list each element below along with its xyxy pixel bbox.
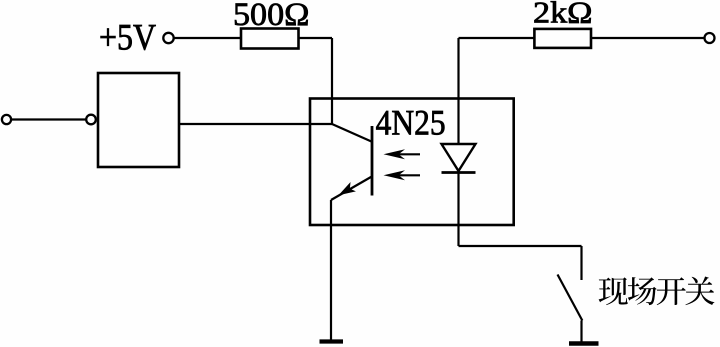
svg-text:2kΩ: 2kΩ <box>533 0 593 29</box>
svg-text:+5V: +5V <box>99 17 156 58</box>
svg-text:500Ω: 500Ω <box>233 0 310 33</box>
svg-text:4N25: 4N25 <box>376 103 446 143</box>
